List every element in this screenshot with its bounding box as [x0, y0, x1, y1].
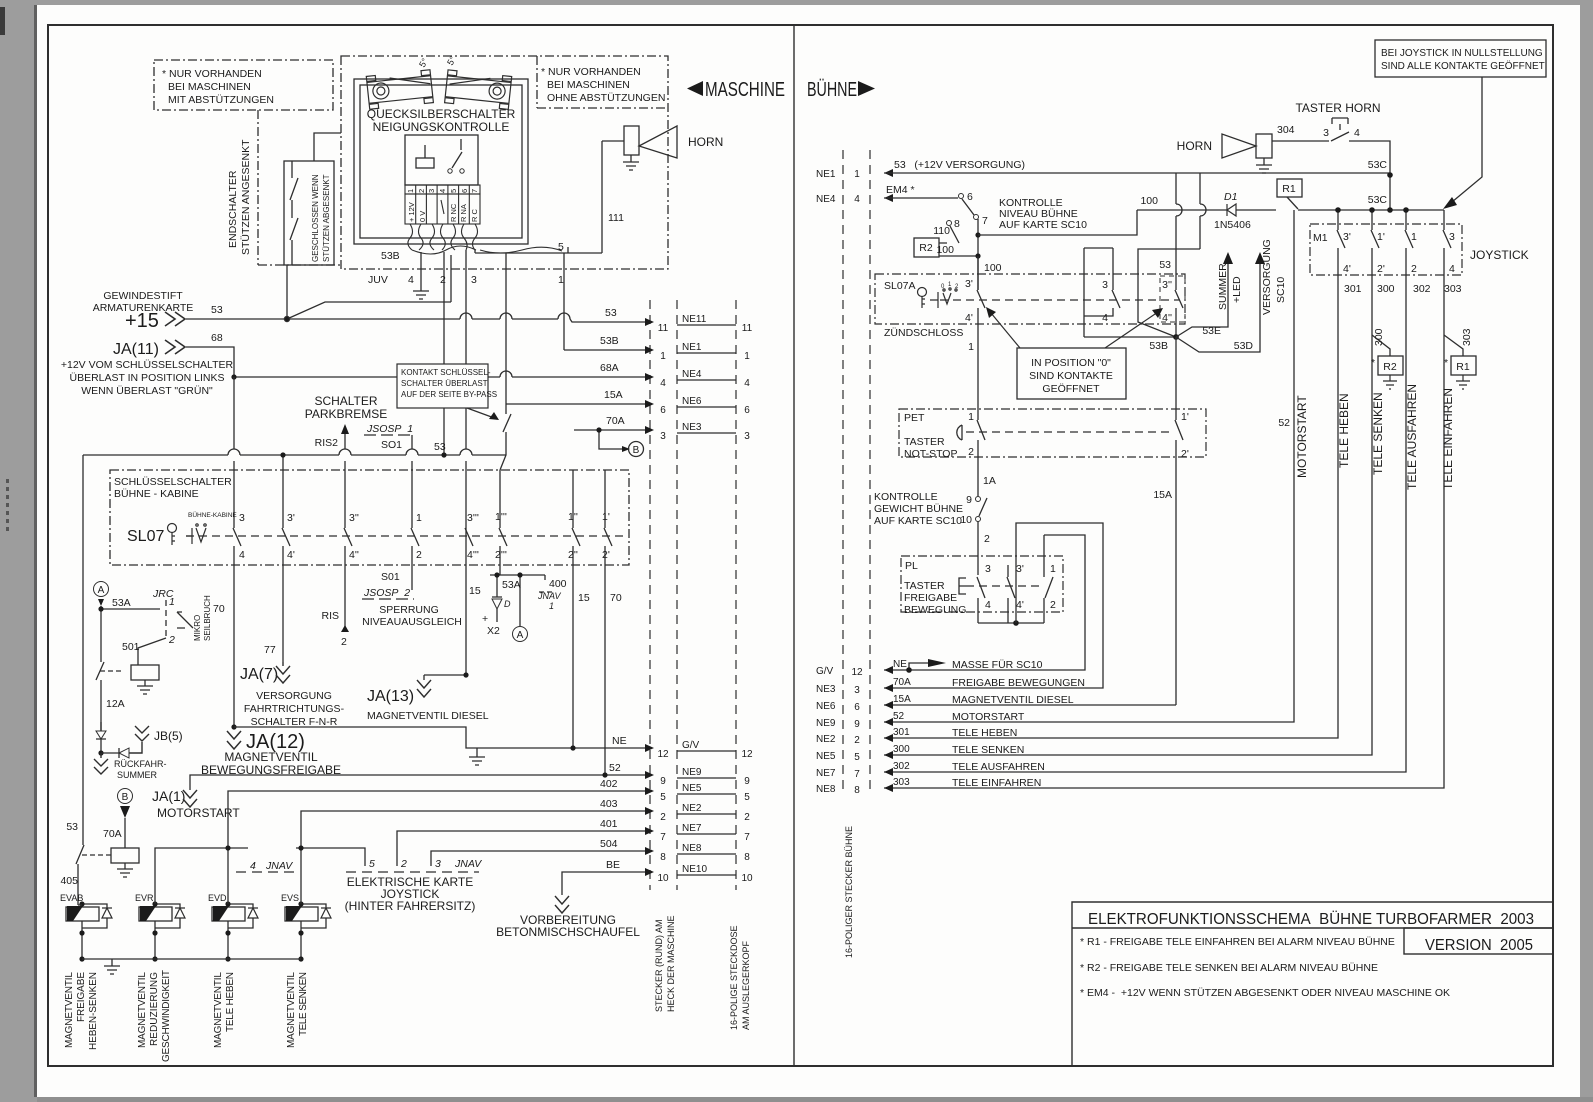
svg-text:52: 52	[1278, 417, 1290, 429]
relay 70A wire from B	[124, 818, 126, 848]
page left shadow edge	[34, 5, 37, 1097]
svg-text:NE8: NE8	[816, 784, 836, 795]
taster horn button	[1332, 118, 1348, 130]
svg-text:1': 1'	[1377, 231, 1385, 243]
svg-text:504: 504	[600, 838, 618, 850]
svg-text:53B: 53B	[381, 250, 400, 262]
PET contact 1p/2p	[884, 337, 1183, 705]
endschalter contact lower	[290, 218, 298, 265]
svg-text:6: 6	[967, 191, 973, 203]
chevron JA1	[183, 790, 197, 807]
svg-text:BEI MASCHINEN: BEI MASCHINEN	[547, 79, 630, 91]
wire 401 riser from 2	[397, 831, 645, 866]
svg-text:501: 501	[122, 641, 140, 653]
diode D to X2	[492, 575, 502, 622]
svg-text:15A: 15A	[1153, 489, 1172, 501]
outer loop masse	[884, 523, 1103, 688]
R1 box top	[1277, 179, 1302, 197]
svg-text:6: 6	[460, 189, 469, 193]
svg-text:SO1: SO1	[381, 439, 402, 451]
svg-text:JSOSP 1: JSOSP 1	[366, 423, 413, 435]
svg-text:M1: M1	[1313, 232, 1328, 244]
svg-text:+LED: +LED	[1231, 276, 1243, 303]
wire 53D to versorgung	[1176, 262, 1260, 352]
svg-text:BÜHNE-KABINE: BÜHNE-KABINE	[188, 511, 237, 519]
svg-text:53B: 53B	[1149, 340, 1168, 352]
svg-text:2: 2	[968, 446, 974, 458]
R1 blade	[1287, 197, 1298, 209]
wire 300 tele senken	[884, 275, 1372, 755]
svg-text:301: 301	[1344, 283, 1362, 295]
svg-text:NE1: NE1	[682, 342, 702, 353]
svg-text:4: 4	[250, 860, 256, 872]
svg-text:1: 1	[660, 351, 666, 362]
svg-text:7: 7	[660, 832, 666, 843]
svg-text:HORN: HORN	[688, 135, 723, 149]
endschalter drop	[286, 265, 288, 319]
svg-text:9: 9	[966, 494, 972, 506]
wire kontrolle niveau to 100 corner	[978, 210, 1137, 235]
svg-text:SEILBRUCH: SEILBRUCH	[203, 595, 212, 641]
svg-text:68: 68	[211, 332, 223, 344]
svg-text:3: 3	[985, 563, 991, 575]
svg-text:MASCHINE: MASCHINE	[705, 79, 785, 101]
svg-text:3: 3	[239, 512, 245, 524]
svg-text:NE3: NE3	[682, 422, 702, 433]
svg-text:1: 1	[854, 169, 860, 180]
svg-text:70: 70	[213, 603, 225, 615]
svg-text:53E: 53E	[1202, 325, 1221, 337]
svg-text:MAGNETVENTIL: MAGNETVENTIL	[137, 972, 148, 1048]
chevron ruckfahr-summer	[94, 753, 108, 774]
svg-text:NE2: NE2	[682, 803, 702, 814]
taster horn blade	[1331, 132, 1349, 141]
quecksilber inner box	[360, 85, 522, 238]
zuendschloss contact 3p/4p	[977, 256, 985, 407]
zuendschloss contact 3pp/4pp	[1175, 280, 1183, 337]
svg-text:3': 3'	[287, 512, 295, 524]
zuendschloss linkage dashed	[940, 299, 1180, 301]
svg-text:1'': 1''	[568, 511, 578, 523]
version box	[1404, 928, 1553, 954]
svg-text:NE2: NE2	[816, 734, 836, 745]
hump bus over JA11 line	[228, 449, 240, 455]
svg-text:304: 304	[1277, 124, 1295, 136]
chevron JA13	[417, 680, 431, 697]
svg-text:0 V: 0 V	[418, 211, 427, 222]
svg-text:KONTAKT SCHLÜSSEL-: KONTAKT SCHLÜSSEL-	[401, 368, 491, 377]
svg-text:110: 110	[933, 225, 950, 237]
svg-text:NE4: NE4	[682, 369, 702, 380]
valve common bus	[82, 958, 301, 960]
wire 52 to pin 9	[190, 775, 645, 790]
svg-text:1A: 1A	[983, 475, 996, 487]
svg-text:SCHALTER F-N-R: SCHALTER F-N-R	[251, 716, 338, 728]
svg-text:1: 1	[968, 411, 974, 423]
SL07 key symbol	[168, 524, 207, 546]
jnav 5 2 3 dashes	[346, 871, 479, 873]
wire SO1 vertical	[411, 435, 413, 590]
svg-text:7: 7	[854, 769, 860, 780]
svg-text:FREIGABE: FREIGABE	[76, 972, 87, 1022]
svg-text:7: 7	[744, 832, 750, 843]
svg-text:77: 77	[264, 644, 276, 656]
relay coil	[416, 158, 434, 168]
svg-text:1: 1	[1411, 231, 1417, 243]
svg-text:5: 5	[744, 792, 750, 803]
svg-text:3': 3'	[965, 278, 973, 290]
svg-text:MAGNETVENTIL DIESEL: MAGNETVENTIL DIESEL	[367, 710, 489, 722]
svg-text:12A: 12A	[106, 698, 125, 710]
relay box inside quecksilber	[405, 135, 478, 185]
squiggle 53line over 100 wire	[1176, 173, 1182, 280]
svg-text:1''': 1'''	[495, 511, 507, 523]
svg-text:70A: 70A	[606, 415, 625, 427]
svg-text:TELE SENKEN: TELE SENKEN	[952, 744, 1024, 756]
arrow to contact 4pp	[1105, 312, 1158, 348]
svg-text:4''': 4'''	[467, 549, 479, 561]
wire 68A to pin 4	[234, 376, 645, 378]
svg-text:NE9: NE9	[816, 718, 836, 729]
svg-text:X2: X2	[487, 625, 500, 637]
masse NE symbol	[909, 663, 928, 670]
stub to B node	[599, 430, 622, 449]
zuendschloss contact 3/4 with feed loop	[1084, 248, 1176, 337]
wire JA7 from bus	[282, 455, 284, 662]
wire EVR up to 402	[155, 848, 228, 904]
wire EM4	[884, 197, 958, 199]
svg-text:MAGNETVENTIL: MAGNETVENTIL	[64, 972, 75, 1048]
svg-text:TELE HEBEN: TELE HEBEN	[952, 727, 1017, 739]
solenoid valve EVS	[285, 904, 331, 959]
svg-text:R1: R1	[1282, 183, 1296, 195]
svg-text:15A: 15A	[604, 389, 623, 401]
svg-text:NE: NE	[893, 659, 907, 670]
svg-text:NE8: NE8	[682, 843, 702, 854]
svg-text:3: 3	[427, 189, 436, 193]
junction 53A diode	[494, 572, 499, 577]
svg-text:1: 1	[1050, 563, 1056, 575]
arrow NE4	[884, 194, 893, 202]
svg-text:300: 300	[1377, 283, 1395, 295]
arrow from kontakt box to bypass switch	[467, 408, 497, 419]
svg-text:A: A	[98, 585, 105, 596]
wire 53B to pin 1	[564, 349, 645, 351]
svg-text:HEBEN-SENKEN: HEBEN-SENKEN	[88, 972, 99, 1050]
svg-text:ELEKTROFUNKTIONSSCHEMA BÜHNE: ELEKTROFUNKTIONSSCHEMA BÜHNE TURBOFARMER…	[1088, 910, 1534, 928]
svg-text:12: 12	[657, 749, 669, 760]
svg-text:GEWINDESTIFT: GEWINDESTIFT	[103, 290, 183, 302]
wire 5 to horn: terminal 3 drop	[475, 250, 602, 253]
svg-text:JB(5): JB(5)	[154, 729, 183, 743]
svg-text:R2: R2	[1383, 361, 1397, 373]
svg-text:+15: +15	[125, 310, 159, 332]
joystick contacts	[1337, 210, 1451, 275]
svg-text:JNAV: JNAV	[265, 860, 293, 872]
JSOSP1 dashed rule	[364, 434, 414, 436]
svg-text:5: 5	[558, 241, 564, 253]
wire 53E to summer	[1176, 262, 1228, 337]
R2 100 wire	[939, 255, 978, 257]
svg-text:2': 2'	[1377, 263, 1385, 275]
svg-text:+12V VOM SCHLÜSSELSCHALTER: +12V VOM SCHLÜSSELSCHALTER	[61, 359, 234, 371]
svg-text:* NUR VORHANDEN: * NUR VORHANDEN	[541, 66, 641, 78]
junction bus JUV2	[441, 452, 446, 457]
ground on valve bus	[104, 959, 120, 974]
svg-text:PL: PL	[905, 560, 918, 572]
strip internal contact	[441, 200, 444, 214]
terminal strip labels row	[405, 194, 480, 224]
svg-text:JA(13): JA(13)	[367, 688, 414, 705]
svg-text:9: 9	[854, 719, 860, 730]
svg-text:70A: 70A	[893, 677, 911, 688]
endschalter contact upper	[290, 161, 298, 218]
svg-text:2: 2	[341, 636, 347, 648]
svg-text:A: A	[517, 630, 524, 641]
top-left black sliver artifact	[0, 7, 5, 35]
svg-text:TELE EINFAHREN: TELE EINFAHREN	[952, 777, 1041, 789]
arrow NE1	[884, 169, 893, 177]
svg-text:2'': 2''	[568, 549, 578, 561]
svg-text:D: D	[504, 599, 511, 609]
svg-text:IN POSITION "0": IN POSITION "0"	[1031, 357, 1111, 369]
svg-text:53B: 53B	[600, 335, 619, 347]
riser from endschalter to 53	[287, 255, 451, 319]
wire taster to 53C	[1349, 141, 1390, 175]
svg-text:BE: BE	[606, 859, 620, 871]
svg-text:302: 302	[893, 761, 910, 772]
horn BUEHNE ground	[1256, 158, 1272, 173]
svg-text:TASTER HORN: TASTER HORN	[1295, 101, 1380, 115]
junction 100a	[975, 232, 980, 237]
connector row NE5 pin 5	[645, 787, 654, 795]
solenoid valve EVR	[139, 904, 185, 959]
svg-text:1: 1	[416, 512, 422, 524]
PET contact 1/2	[977, 407, 985, 477]
wire RIS2 vertical	[344, 434, 346, 632]
B pointer triangle	[120, 806, 130, 818]
wire JA11 68	[186, 347, 234, 377]
svg-text:15: 15	[578, 592, 590, 604]
53C loop to 53B node	[1138, 249, 1200, 337]
svg-text:B: B	[633, 445, 640, 456]
wire A to JRC	[101, 606, 160, 662]
svg-text:2': 2'	[602, 549, 610, 561]
node B arrow	[622, 446, 630, 452]
svg-text:BETONMISCHSCHAUFEL: BETONMISCHSCHAUFEL	[496, 925, 640, 939]
wire bundle squiggles below strip	[408, 224, 562, 254]
relay 501 box	[131, 665, 159, 680]
svg-text:NIVEAUAUSGLEICH: NIVEAUAUSGLEICH	[362, 616, 462, 628]
wire from endschalter box to queck region	[314, 133, 341, 161]
svg-text:TELE SENKEN: TELE SENKEN	[298, 972, 309, 1036]
node 100 vertical	[977, 235, 979, 290]
svg-text:TASTER: TASTER	[904, 580, 945, 592]
svg-text:SL07: SL07	[127, 528, 164, 545]
wire 402 riser	[228, 791, 645, 848]
svg-text:REDUZIERUNG: REDUZIERUNG	[149, 972, 160, 1046]
svg-text:5: 5	[660, 792, 666, 803]
PL bottom bus	[978, 622, 1044, 624]
svg-text:4: 4	[660, 378, 666, 389]
svg-text:6: 6	[854, 702, 860, 713]
svg-text:TELE SENKEN: TELE SENKEN	[1371, 392, 1385, 475]
SL07 dash-dot box	[110, 470, 629, 565]
svg-text:TELE EINFAHREN: TELE EINFAHREN	[1441, 388, 1455, 490]
ground on NE wire	[469, 748, 485, 765]
svg-text:OHNE ABSTÜTZUNGEN: OHNE ABSTÜTZUNGEN	[547, 92, 665, 104]
svg-text:3: 3	[854, 685, 860, 696]
svg-text:TELE AUSFAHREN: TELE AUSFAHREN	[1405, 384, 1419, 490]
box KONTAKT SCHLUESSELSCHALTER UEBERLAST	[397, 364, 488, 408]
svg-text:JA(7): JA(7)	[240, 666, 278, 683]
svg-text:301: 301	[893, 727, 910, 738]
svg-text:401: 401	[600, 818, 618, 830]
relay contact terminals	[448, 169, 452, 173]
svg-text:4'': 4''	[349, 549, 359, 561]
svg-text:FREIGABE: FREIGABE	[904, 592, 957, 604]
relay 70A ground	[117, 863, 133, 877]
header arrow MASCHINE	[687, 81, 703, 96]
hump bus over JUV3	[460, 449, 472, 455]
svg-text:*: *	[1371, 357, 1375, 369]
wire +15 53 to connector pin 11	[186, 319, 645, 322]
svg-text:53C: 53C	[1368, 194, 1388, 206]
svg-text:111: 111	[608, 212, 624, 224]
PET dash-dot box	[899, 409, 1206, 457]
svg-text:52: 52	[609, 762, 621, 774]
junction 53C bus	[1387, 207, 1393, 213]
contact 6/7	[959, 194, 964, 199]
junction 403 EVS	[298, 845, 303, 850]
svg-text:303: 303	[1444, 283, 1462, 295]
junction JA11 corner	[231, 374, 236, 379]
svg-text:SCHLÜSSELSCHALTER: SCHLÜSSELSCHALTER	[114, 476, 232, 488]
svg-text:TELE AUSFAHREN: TELE AUSFAHREN	[952, 761, 1045, 773]
svg-text:TELE HEBEN: TELE HEBEN	[1337, 393, 1351, 468]
svg-text:4: 4	[1102, 312, 1108, 324]
microswitch blade	[177, 612, 193, 628]
svg-text:MAGNETVENTIL DIESEL: MAGNETVENTIL DIESEL	[952, 694, 1074, 706]
relay 70A box	[111, 848, 139, 863]
svg-text:5: 5	[369, 858, 375, 870]
svg-text:SPERRUNG: SPERRUNG	[379, 604, 439, 616]
connector row NE9 pin 9	[645, 771, 654, 779]
svg-text:1: 1	[406, 189, 415, 193]
svg-text:3'': 3''	[1162, 279, 1172, 291]
svg-text:2: 2	[1050, 599, 1056, 611]
R1 ground	[1456, 375, 1470, 389]
wire 70 below SL07	[604, 565, 606, 775]
svg-text:5: 5	[854, 752, 860, 763]
dash-dot box QUECKSILBERSCHALTER region	[341, 56, 668, 269]
dash-dot partition NUR VORHANDEN OHNE ABSTUETZUNGEN	[537, 56, 668, 108]
dash-dot link line vertical	[257, 110, 259, 265]
svg-text:NOT-STOP: NOT-STOP	[904, 448, 957, 460]
svg-text:6: 6	[744, 405, 750, 416]
svg-text:G/V: G/V	[682, 740, 700, 751]
connector row NE4 pin 4	[645, 373, 654, 381]
svg-text:70: 70	[610, 592, 622, 604]
svg-text:NE3: NE3	[816, 684, 836, 695]
horn BUEHNE trumpet	[1222, 118, 1390, 210]
relay contact	[452, 139, 462, 168]
svg-text:2: 2	[168, 634, 175, 646]
svg-text:6: 6	[660, 405, 666, 416]
RIS2 up arrow	[341, 424, 349, 434]
strip numbers rotated	[406, 189, 479, 222]
svg-text:EVD: EVD	[208, 893, 227, 903]
contact 1ppp leads	[499, 470, 501, 565]
svg-text:403: 403	[600, 798, 618, 810]
svg-text:2: 2	[416, 549, 422, 561]
title block box	[1072, 902, 1553, 1066]
mushroom button	[957, 425, 962, 440]
svg-text:ÜBERLAST IN POSITION LINKS: ÜBERLAST IN POSITION LINKS	[69, 372, 224, 384]
svg-text:PET: PET	[904, 412, 925, 424]
diode 12A triangle	[96, 731, 106, 739]
svg-text:BEI MASCHINEN: BEI MASCHINEN	[168, 81, 251, 93]
junction 53B	[1173, 334, 1179, 340]
svg-text:S01: S01	[381, 571, 400, 583]
svg-text:5: 5	[449, 189, 458, 193]
svg-text:53A: 53A	[502, 579, 521, 591]
horn ground	[623, 155, 639, 170]
svg-text:4': 4'	[965, 312, 973, 324]
PL contact 3/4	[977, 577, 985, 623]
wire EVAB top from switch	[78, 904, 82, 906]
wire JUV3 contact segment	[465, 528, 467, 546]
quecksilber outer box	[354, 79, 528, 244]
svg-text:100: 100	[1140, 195, 1158, 207]
svg-text:RIS: RIS	[321, 610, 339, 622]
chevron +15	[165, 312, 185, 326]
svg-text:NE1: NE1	[816, 169, 836, 180]
svg-text:10: 10	[960, 514, 972, 526]
svg-text:MASSE FÜR SC10: MASSE FÜR SC10	[952, 659, 1043, 671]
RIS down arrow	[341, 625, 349, 632]
mercury switch capsule right	[445, 70, 512, 110]
svg-text:VERSION 2005: VERSION 2005	[1425, 937, 1533, 954]
svg-text:300: 300	[893, 744, 910, 755]
svg-text:* R2 - FREIGABE TELE SENKEN BE: * R2 - FREIGABE TELE SENKEN BEI ALARM NI…	[1080, 962, 1378, 974]
svg-text:68A: 68A	[600, 362, 619, 374]
svg-text:MAGNETVENTIL: MAGNETVENTIL	[213, 972, 224, 1048]
svg-text:4: 4	[438, 189, 447, 193]
svg-text:MAGNETVENTIL: MAGNETVENTIL	[286, 972, 297, 1048]
svg-text:3: 3	[435, 858, 441, 870]
svg-text:303: 303	[893, 777, 910, 788]
summer arrowhead	[1223, 252, 1233, 264]
bus 53 horizontal	[83, 454, 506, 456]
junction bus JA7	[280, 452, 285, 457]
svg-text:R1: R1	[1456, 361, 1470, 373]
zuendschloss key symbol	[918, 288, 958, 309]
svg-text:AM AUSLEGERKOPF: AM AUSLEGERKOPF	[741, 940, 751, 1030]
chevron JA11	[165, 340, 185, 354]
svg-text:2: 2	[400, 858, 407, 870]
svg-text:TELE HEBEN: TELE HEBEN	[225, 972, 236, 1032]
svg-text:8: 8	[854, 785, 860, 796]
svg-text:10: 10	[741, 873, 753, 884]
svg-text:R NC: R NC	[449, 203, 458, 222]
contact 1pp leads	[572, 470, 574, 565]
svg-text:STÜTZEN ABGESENKT: STÜTZEN ABGESENKT	[322, 174, 331, 262]
wire 301 tele heben	[884, 275, 1338, 738]
wire 70A to pin 3	[574, 429, 645, 431]
left connector dashed columns	[650, 300, 736, 890]
svg-text:ENDSCHALTER: ENDSCHALTER	[227, 170, 239, 248]
